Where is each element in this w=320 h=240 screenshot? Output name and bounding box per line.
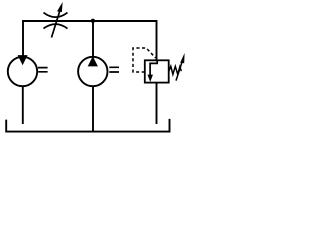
motor M1 shaft lines [38,68,48,72]
wire: pump P1 outlet to junction [92,21,94,57]
throttle valve V1 lower arc [44,24,68,28]
wire: motor M1 return into tank [22,87,24,124]
relief valve V2 spring adjustment arrow shaft [176,62,182,81]
relief valve V2 spring [169,66,182,74]
wire: pump P1 suction to tank [92,87,94,132]
pump P1 shaft lines [109,67,119,72]
throttle valve V1 adjustment arrow shaft [52,9,61,37]
relief valve V2 internal flow path [150,60,157,75]
pump P1 flow triangle (pointing up) [88,56,98,66]
relief valve V2 spring adjustment arrowhead [180,53,185,63]
relief valve V2 pilot line (dashed) [133,48,156,72]
throttle valve V1 upper arc [44,13,68,18]
throttle valve V1 adjustment arrowhead [57,2,63,12]
relief valve V2 body square [145,60,169,82]
tank T1 [6,119,169,132]
wire: relief valve V2 drain into tank [156,83,158,124]
pump P1 circle [78,57,107,86]
motor M1 circle [8,57,37,86]
node: junction dot on supply line [91,19,95,23]
wire: motor riser + top supply line + relief valve drop [23,21,157,60]
relief valve V2 internal arrowhead (down) [148,75,154,82]
motor M1 flow triangle (pointing down) [18,55,28,65]
